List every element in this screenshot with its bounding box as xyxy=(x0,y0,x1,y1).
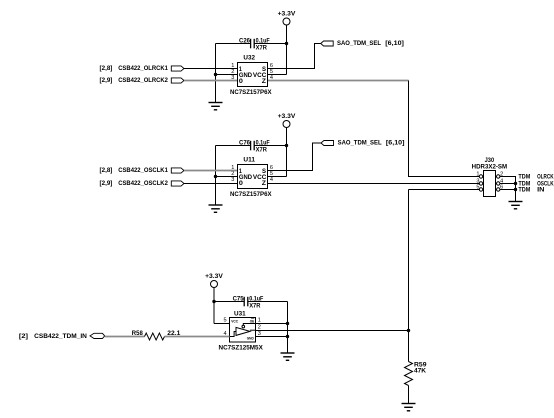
ground (below R59) xyxy=(402,404,416,411)
junction dot J30 pin 6 / ground drop xyxy=(514,188,517,191)
node TDM IN label xyxy=(518,188,544,194)
capacitor C75 0.1uF X7R xyxy=(214,296,288,309)
J30 left pin circles xyxy=(479,175,482,191)
wire R58 to U31 pin 4 xyxy=(165,336,230,338)
ground (right of J30) xyxy=(509,202,523,209)
resistor R59 47K xyxy=(405,362,428,386)
svg-text:X7R: X7R xyxy=(256,46,268,52)
wire C75 right down ground bus xyxy=(287,302,289,354)
ground (middle section) xyxy=(209,205,223,212)
J30 pin numbers xyxy=(476,172,503,191)
junction dot U31 pin 1 / ground bus xyxy=(286,322,289,325)
wire +3.3V down to U32 pin 5 VCC xyxy=(286,25,288,75)
wire U31 pin 2 output to TDM bus xyxy=(256,330,409,332)
junction dot U11 pin 2 GND xyxy=(214,175,217,178)
wire CSB422_OLRCK1 to U32 pin 1 xyxy=(184,68,237,70)
svg-text:SAO_TDM_SEL: SAO_TDM_SEL xyxy=(337,40,381,47)
power +3.3V (bottom, U31) xyxy=(205,273,224,287)
ground (bottom, right of U31) xyxy=(281,353,295,360)
wire U32 pin 6 S up to SAO_TDM_SEL flag xyxy=(268,44,321,69)
wire U32 pin 5 stub xyxy=(268,74,287,76)
node CSB422_OLRCK2 flag [2,9] xyxy=(100,77,185,84)
svg-text:Z: Z xyxy=(262,181,267,187)
svg-text:0.1uF: 0.1uF xyxy=(249,296,263,302)
wire U11 pin 2 GND stub xyxy=(216,176,238,178)
svg-text:0.1uF: 0.1uF xyxy=(256,38,270,44)
node CSB422_OLRCK1 flag [2,8] xyxy=(100,65,185,72)
wire U32 pin 2 GND stub xyxy=(216,74,238,76)
wire U11 pin 5 stub xyxy=(268,176,287,178)
node SAO_TDM_SEL flag (top) xyxy=(321,40,404,47)
svg-text:1: 1 xyxy=(476,172,479,178)
junction dot U32 pin 2 GND xyxy=(214,73,217,76)
svg-text:CSB422_TDM_IN: CSB422_TDM_IN xyxy=(34,333,87,340)
ground (top section) xyxy=(209,103,223,110)
resistor R58 22.1 xyxy=(132,331,181,340)
U11 internal pin labels xyxy=(239,169,267,187)
wire CSB422_OSCLK2 to U11 pin 3 xyxy=(184,183,237,185)
svg-text:NC7SZ157P6X: NC7SZ157P6X xyxy=(230,90,272,96)
wire U31 pin 1 OE stub to ground bus xyxy=(256,323,288,325)
wire J30 pin 4 stub xyxy=(500,183,516,185)
U32 internal pin labels xyxy=(239,67,267,85)
svg-text:[2,8]: [2,8] xyxy=(100,65,113,72)
svg-text:1: 1 xyxy=(258,318,261,324)
wire OLRCK bus down to J30 pin 1 xyxy=(409,81,480,177)
svg-text:NC7SZ125M5X: NC7SZ125M5X xyxy=(219,346,263,352)
junction dot J30 pin 4 / ground drop xyxy=(514,182,517,185)
junction dot C76 / +3.3V xyxy=(285,144,288,147)
svg-text:3: 3 xyxy=(258,331,261,337)
svg-text:+3.3V: +3.3V xyxy=(205,273,224,280)
mux U32 NC7SZ157P6X body xyxy=(230,56,272,97)
connector J30 HDR3X2-SM body xyxy=(472,158,508,197)
svg-text:OLRCK: OLRCK xyxy=(537,175,554,181)
power +3.3V (top, U32) xyxy=(278,11,297,25)
svg-text:+3.3V: +3.3V xyxy=(278,11,297,18)
mux U11 NC7SZ157P6X body xyxy=(230,158,272,199)
junction dot C75 / +3.3V xyxy=(212,300,215,303)
wire C26 left down to ground xyxy=(215,44,217,103)
svg-text:U11: U11 xyxy=(243,158,255,164)
svg-text:J30: J30 xyxy=(485,158,495,164)
junction dot C26 / +3.3V xyxy=(285,42,288,45)
svg-text:4: 4 xyxy=(270,177,273,183)
svg-text:GND: GND xyxy=(247,337,255,341)
wire +3.3V down to U31 pin 5 VCC xyxy=(213,288,215,324)
U31 internal buffer triangle with OE bubble xyxy=(230,324,256,337)
svg-text:47K: 47K xyxy=(414,369,427,375)
wire J30 pin 2 to ground drop xyxy=(500,177,516,202)
wire TDM bus down from J30 pin 5 through U31 output to R59 xyxy=(408,190,410,362)
power +3.3V (middle, U11) xyxy=(278,113,297,127)
node CSB422_OSCLK2 flag [2,9] xyxy=(100,180,185,187)
svg-text:C76: C76 xyxy=(239,140,251,146)
svg-text:VCC: VCC xyxy=(231,319,238,323)
svg-text:0: 0 xyxy=(239,181,244,187)
svg-text:0.1uF: 0.1uF xyxy=(256,140,270,146)
svg-text:U32: U32 xyxy=(243,56,255,62)
svg-text:IN: IN xyxy=(537,188,544,194)
wire C76 left down to ground xyxy=(215,146,217,206)
junction dot TDM bus / R59 xyxy=(407,329,410,332)
wire J30 pin 6 stub xyxy=(500,189,516,191)
J30 right pin circles xyxy=(497,175,500,191)
svg-text:[2]: [2] xyxy=(19,333,28,340)
wire U31 pin 3 GND stub to ground bus xyxy=(256,336,288,338)
svg-text:C26: C26 xyxy=(239,38,251,44)
svg-text:[2,8]: [2,8] xyxy=(100,167,113,174)
wire CSB422_OSCLK1 to U11 pin 1 xyxy=(184,170,237,172)
svg-text:NC7SZ157P6X: NC7SZ157P6X xyxy=(230,192,272,198)
wire U32 pin 4 Z output to OLRCK bus xyxy=(268,80,409,82)
svg-text:CSB422_OSCLK1: CSB422_OSCLK1 xyxy=(118,167,168,174)
svg-text:HDR3X2-SM: HDR3X2-SM xyxy=(472,164,508,170)
svg-text:C75: C75 xyxy=(233,296,245,302)
svg-text:2: 2 xyxy=(258,325,261,331)
wire +3.3V down to U11 pin 5 VCC xyxy=(286,128,288,177)
U31 pin numbers xyxy=(223,318,260,338)
node TDM OLRCK label xyxy=(518,175,554,181)
svg-text:[2,9]: [2,9] xyxy=(100,180,113,187)
wire R59 to ground xyxy=(408,386,410,404)
buffer U31 NC7SZ125M5X body xyxy=(219,312,263,352)
svg-text:+3.3V: +3.3V xyxy=(278,113,297,120)
svg-text:3: 3 xyxy=(231,177,234,183)
U32 pin numbers xyxy=(231,63,273,81)
node CSB422_TDM_IN flag [2] xyxy=(19,333,105,340)
svg-text:X7R: X7R xyxy=(249,304,261,310)
svg-text:Z: Z xyxy=(262,79,267,85)
U31 internal labels VCC OE GND xyxy=(231,319,254,341)
wire CSB422_TDM_IN to R58 xyxy=(105,336,145,338)
wire CSB422_OLRCK2 to U32 pin 3 xyxy=(184,80,237,82)
capacitor C26 0.1uF X7R xyxy=(216,38,287,51)
U11 pin numbers xyxy=(231,165,273,183)
svg-text:R58: R58 xyxy=(132,331,144,337)
wire U11 pin 6 S up to SAO_TDM_SEL flag xyxy=(268,143,321,171)
svg-text:TDM: TDM xyxy=(518,175,530,181)
svg-text:CSB422_OLRCK1: CSB422_OLRCK1 xyxy=(118,65,168,72)
capacitor C76 0.1uF X7R xyxy=(216,140,287,153)
wire U11 pin 4 Z output to J30 pin 3 xyxy=(268,183,479,185)
node CSB422_OSCLK1 flag [2,8] xyxy=(100,167,185,174)
svg-text:U31: U31 xyxy=(234,312,246,318)
svg-text:TDM: TDM xyxy=(518,188,530,194)
wire TDM bus to J30 pin 5 xyxy=(409,189,480,191)
junction dot U31 pin 3 / ground bus xyxy=(286,335,289,338)
svg-text:CSB422_OLRCK2: CSB422_OLRCK2 xyxy=(118,77,168,84)
svg-text:[6,10]: [6,10] xyxy=(385,40,404,47)
node TDM OSCLK label xyxy=(518,182,554,188)
svg-text:[2,9]: [2,9] xyxy=(100,77,113,84)
svg-text:X7R: X7R xyxy=(256,148,268,154)
wire U31 pin 5 stub xyxy=(214,323,230,325)
node SAO_TDM_SEL flag (middle) xyxy=(321,140,405,147)
svg-text:5: 5 xyxy=(223,318,226,324)
svg-text:CSB422_OSCLK2: CSB422_OSCLK2 xyxy=(118,180,168,187)
svg-text:[6,10]: [6,10] xyxy=(386,140,405,147)
svg-text:0: 0 xyxy=(239,79,244,85)
svg-text:OE: OE xyxy=(250,319,255,323)
svg-text:SAO_TDM_SEL: SAO_TDM_SEL xyxy=(338,140,382,147)
